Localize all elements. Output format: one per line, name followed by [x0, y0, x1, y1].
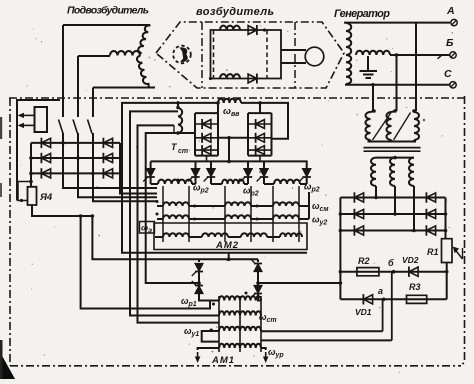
terminal C: [450, 82, 456, 88]
switch S1: [59, 120, 64, 134]
wire T_st feed lower: [138, 125, 220, 322]
wire phase A down to switch: [62, 25, 64, 117]
diode VL4: [103, 138, 112, 147]
diode VL6: [103, 169, 112, 178]
node rail2 phase B: [76, 156, 80, 160]
node rail3 left: [29, 172, 33, 176]
node rotating top: [263, 28, 266, 31]
node R4 top: [29, 180, 33, 184]
scan artifact speck 2: [0, 183, 2, 197]
wire T_st top stub: [177, 103, 179, 108]
diode VB6: [426, 226, 435, 235]
wire left stack mid: [198, 272, 200, 285]
node T_st mid: [176, 106, 180, 110]
node mid-row link: [227, 136, 231, 140]
winding w_sm coils: [163, 202, 189, 206]
sub-exciter phase wire mid: [78, 55, 110, 57]
node w_r2 dot1: [177, 179, 180, 182]
generator neutral wire: [367, 56, 369, 70]
terminal A: [451, 19, 457, 25]
winding w_u2 coils: [163, 215, 189, 219]
diode VM4: [256, 120, 265, 129]
svg-text:б: б: [388, 258, 394, 268]
svg-text:С: С: [444, 68, 452, 80]
resistor R4: [28, 187, 37, 205]
node T_st top: [176, 101, 180, 105]
generator coil continues to bottom: [346, 55, 351, 84]
wire column2 bottom bar: [248, 155, 272, 157]
svg-text:ст: ст: [178, 148, 188, 155]
diode VB3: [354, 226, 363, 235]
wire w_vv right to diodes: [241, 103, 288, 139]
transformer core: [364, 148, 421, 152]
rectifier right bus: [120, 143, 157, 194]
wire right stack bottom: [258, 294, 261, 301]
transformer primary diag B-C: [394, 113, 411, 141]
node transformer phase A: [372, 109, 376, 113]
wire R1 bottom: [446, 263, 448, 272]
node generator C phase: [371, 83, 375, 87]
diode VM1: [202, 120, 211, 129]
winding w_r2 coil 2: [222, 180, 244, 184]
wire bus left vertical: [17, 100, 60, 201]
diode column2 left rail: [247, 113, 249, 156]
node tap thyristor feed: [91, 214, 95, 218]
ground symbol: [360, 71, 378, 78]
wire AM2 right bracket: [308, 192, 310, 219]
transformer primary coil B: [392, 111, 396, 112]
wire w_ur left output: [198, 348, 219, 350]
svg-text:А: А: [446, 5, 455, 17]
wire w_u1 right to a-line: [261, 330, 383, 332]
wire phase A down: [415, 23, 417, 111]
diode VL2: [41, 153, 50, 162]
wire column1 bottom bar: [195, 155, 218, 157]
node R1 bottom: [445, 270, 449, 274]
node secondary mid: [393, 156, 397, 160]
winding w_ur coils: [219, 344, 240, 348]
svg-text:Я4: Я4: [39, 192, 53, 203]
sub-exciter coil L1 (vertical): [138, 25, 150, 53]
node rail1 phase A: [61, 141, 65, 145]
core leg 2: [188, 186, 190, 242]
wire a to w_u1: [383, 299, 384, 331]
svg-text:Подвозбудитель: Подвозбудитель: [67, 5, 149, 17]
wire col1 to rail stub: [206, 156, 208, 162]
wire b to w_u1: [392, 272, 394, 341]
wire w_ur right output: [261, 348, 266, 350]
transformer secondary coil C: [409, 158, 414, 186]
transformer primary bottom bar: [368, 140, 417, 142]
arrow output bottom: [22, 124, 34, 126]
node left bus rail3: [339, 229, 343, 233]
node left bus ctl: [339, 281, 343, 285]
wire T_st bottom: [146, 133, 199, 283]
node rotating bottom left: [209, 77, 212, 80]
diode VL3: [41, 169, 50, 178]
winding w_r2 coil 1: [158, 180, 192, 184]
diode column1 right rail: [217, 113, 219, 156]
diode VD2: [409, 267, 418, 276]
svg-text:Генератор: Генератор: [334, 8, 390, 20]
wire exciter armature top: [281, 49, 306, 51]
wire w_e links: [155, 236, 280, 238]
arrow output top: [22, 114, 34, 116]
node rail3 phase C: [91, 172, 95, 176]
exciter rotor boundary dash-dot line right: [294, 22, 296, 88]
arrow w_ur left: [197, 352, 199, 359]
node w_r1 dot: [212, 303, 215, 306]
wire phase C down: [372, 85, 374, 111]
regulator border top (dash-dot): [9, 97, 464, 99]
generator stator wire bottom: [345, 84, 450, 86]
output box: [35, 107, 48, 132]
thyristor VS3: [210, 161, 212, 168]
exciter pilot symbol glyph: [180, 47, 188, 62]
AM1 core leg 1: [218, 296, 220, 352]
diode VB2: [354, 209, 363, 218]
svg-text:VD1: VD1: [355, 307, 372, 317]
diode VM3: [202, 146, 211, 155]
wire mid-row link: [218, 137, 248, 139]
node T_st bottom: [176, 131, 180, 135]
transformer primary coil A: [371, 111, 375, 112]
wire to terminal B: [390, 54, 450, 56]
wire secondary C to bridge: [413, 186, 415, 231]
diode VM2: [202, 133, 211, 142]
core leg 6: [298, 186, 300, 242]
generator stator wire top: [344, 22, 450, 24]
node w_sm dots: [156, 200, 159, 203]
wire R4 loop: [18, 182, 31, 201]
wire a-line: [340, 298, 446, 300]
transformer primary coil C: [413, 111, 415, 112]
node link rail: [227, 160, 231, 164]
wire right stack mid: [257, 272, 259, 285]
node right stack mid: [256, 281, 260, 285]
transformer T_st primary coil: [178, 108, 182, 133]
diode VM5: [256, 133, 265, 142]
svg-text:АМ1: АМ1: [211, 355, 234, 366]
wire column1 feed stub: [217, 103, 219, 113]
rotating rectifier dashed edge left: [213, 30, 215, 79]
svg-text:АМ2: АМ2: [215, 240, 239, 251]
wire phase A to rectifier: [63, 133, 157, 188]
diode VL1: [41, 138, 50, 147]
node right bus rail2: [444, 212, 448, 216]
thyristor anode rail: [151, 160, 299, 162]
wire T_st feed upper: [130, 111, 219, 315]
thyristor VS1: [150, 161, 152, 168]
svg-text:VD2: VD2: [402, 255, 419, 265]
node a: [382, 298, 386, 302]
node left bus rail2: [339, 212, 343, 216]
wire phase C to rectifier: [93, 133, 157, 201]
wire b-line: [340, 271, 446, 273]
wire phase B down to switch: [77, 56, 79, 117]
winding w_r1 coils: [219, 296, 240, 300]
rotating rectifier coil top: [220, 26, 240, 30]
terminal B: [450, 52, 456, 58]
wire T_st lower stub: [173, 125, 175, 133]
node w_u1 dot: [210, 329, 213, 332]
node R4 loop: [20, 199, 23, 202]
wire w_u2 links: [157, 218, 309, 220]
wire R4 output: [32, 205, 92, 216]
thyristor VS7 (down): [195, 264, 203, 272]
thyristor VS2: [195, 161, 197, 168]
diode VL5: [103, 153, 112, 162]
node thyristor feed tap: [227, 258, 231, 262]
switch S3: [88, 120, 93, 134]
regulator border left (dash-dot): [9, 98, 11, 366]
wire col2 to rail stub: [259, 156, 261, 162]
wire w_vv left down: [122, 103, 307, 253]
exciter pilot symbol circle: [173, 46, 191, 64]
sub-exciter coil L3 (vertical): [137, 56, 149, 88]
wire column1 top bar: [195, 112, 218, 114]
diode column2 right rail: [271, 113, 273, 156]
node bridge C: [412, 229, 416, 233]
switch S2: [73, 120, 78, 134]
diode rotating top: [248, 26, 257, 35]
wire left stack top: [198, 259, 200, 262]
rectifier left bus: [30, 143, 32, 187]
node tap w_r1 feed: [79, 214, 83, 218]
bridge left bus: [339, 198, 341, 300]
scan artifact speck 4: [423, 119, 426, 122]
node bridge B: [393, 212, 397, 216]
bridge right bus: [445, 198, 447, 239]
wire left stack bottom: [199, 294, 219, 301]
thyristor VS10 (down): [254, 286, 262, 294]
rotating rectifier circuit box: [211, 30, 282, 79]
scan artifact speck 1: [0, 117, 2, 139]
AM2 box: [154, 223, 307, 250]
wire w_u1 hook to lower row: [202, 331, 219, 342]
wire link to thyristor rail: [228, 138, 230, 162]
bridge rail 1: [340, 197, 445, 199]
winding w_r2 coil 3: [274, 180, 300, 184]
node left stack mid: [197, 281, 201, 285]
svg-text:R1: R1: [427, 247, 439, 257]
AM1 core leg 3: [260, 296, 262, 352]
sub-exciter star wire bottom: [93, 87, 155, 89]
scan artifact speck 3: [259, 171, 261, 173]
node w_r2 dot2: [239, 179, 242, 182]
wire column2 top bar: [248, 112, 272, 114]
winding w_e coils: [163, 233, 189, 237]
winding w_u1 coils: [219, 327, 240, 331]
svg-text:R3: R3: [409, 282, 421, 292]
resistor R1 (rheostat): [442, 239, 453, 263]
arrow w_ur right: [265, 352, 267, 359]
w_e label box: [140, 222, 155, 234]
transformer primary diag A-B: [373, 113, 392, 141]
AM1 core leg 2: [239, 296, 241, 352]
node generator B phase: [395, 53, 399, 57]
generator coil phase A (vertical): [346, 23, 351, 55]
resistor R3: [407, 295, 427, 303]
wire exciter armature bottom: [281, 62, 306, 64]
bridge rail 3: [340, 230, 445, 232]
node right bus rail3: [444, 229, 448, 233]
diode VM6: [256, 146, 265, 155]
rectifier rail 3: [31, 172, 120, 174]
core leg 1: [162, 186, 164, 242]
transformer secondary top bar: [376, 157, 414, 159]
diode column1 left rail: [194, 113, 196, 156]
thyristor VS5: [263, 161, 265, 168]
wire column2 feed stub: [259, 103, 261, 113]
wire phase B to rectifier: [78, 133, 157, 197]
wire w_r2 taps: [151, 183, 307, 185]
rectifier rail 2: [31, 157, 120, 159]
core leg 3: [224, 186, 226, 242]
node column2 feed: [258, 101, 262, 105]
wire gate bar stub: [228, 253, 230, 260]
wire right stack control: [258, 282, 340, 284]
diode rotating bottom: [248, 74, 257, 83]
exciter rotor boundary dash-dot line left: [201, 22, 203, 88]
diode VB5: [426, 209, 435, 218]
wire phase C down to switch: [92, 88, 94, 118]
svg-text:Б: Б: [446, 37, 454, 49]
node rail2 left: [29, 156, 33, 160]
resistor R2: [357, 268, 379, 276]
exciter armature circle: [305, 47, 324, 66]
thyristor VS6: [299, 161, 307, 168]
node w_vv left: [216, 101, 220, 105]
scan artifact corner wedge: [0, 352, 15, 379]
node transformer phase B: [393, 109, 397, 113]
bridge rail 2: [340, 213, 445, 215]
rotating rectifier coil bottom: [220, 74, 240, 78]
thyristor VS8 (up): [195, 286, 203, 294]
wire thyristor common feed: [92, 216, 258, 259]
wire phase B down: [396, 55, 398, 111]
diode VB1: [354, 193, 363, 202]
diode VB4: [426, 193, 435, 202]
svg-text:а: а: [378, 286, 383, 296]
sub-exciter winding phase wire top: [63, 24, 150, 26]
transformer secondary coil A: [371, 158, 376, 186]
wire secondary A to bridge: [375, 186, 377, 198]
regulator border bottom (dash-dot): [10, 365, 461, 367]
winding w_st coils: [219, 311, 240, 315]
node b: [392, 270, 396, 274]
sub-exciter coil L2 (horizontal): [110, 51, 140, 56]
wire w_sm links: [157, 205, 309, 207]
thyristor VS4: [247, 161, 249, 168]
node bridge A: [374, 196, 378, 200]
core leg 5: [272, 186, 274, 242]
rotating rectifier dashed edge right: [266, 30, 268, 79]
wire R1 to a-line: [446, 272, 448, 300]
wire secondary B to bridge: [394, 186, 396, 214]
scan artifact left streak: [0, 340, 3, 379]
exciter hexagon enclosure (dash-dot): [156, 22, 344, 88]
svg-text:возбудитель: возбудитель: [196, 6, 274, 18]
winding w_vv coil: [218, 99, 241, 103]
generator coil phase B (horizontal): [356, 51, 390, 55]
svg-text:R2: R2: [358, 256, 370, 266]
regulator border right (dash-dot): [461, 96, 465, 366]
wire to AM1 w_r1 feed: [81, 216, 219, 309]
diode VD1: [363, 295, 372, 304]
thyristor VS9 (up): [254, 264, 262, 272]
core leg 4: [250, 186, 252, 242]
R1 wiper arrow: [455, 250, 463, 260]
transformer secondary coil B: [390, 158, 395, 186]
rectifier rail 1: [31, 142, 120, 144]
node transformer phase C: [412, 109, 416, 113]
wire right stack top: [257, 259, 259, 262]
wire w_u1 right to b-line: [261, 339, 392, 341]
